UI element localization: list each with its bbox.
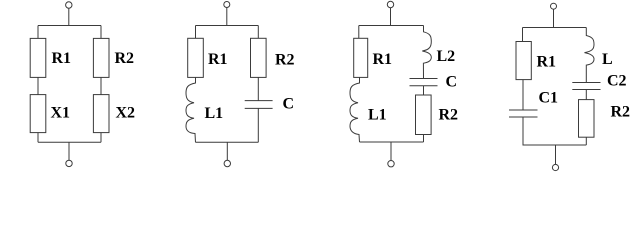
wire bottom bus: [38, 141, 101, 143]
capacitor C: [245, 101, 273, 109]
inductor L1: [350, 77, 360, 142]
wire bottom stem: [555, 145, 557, 164]
terminal top: [66, 2, 72, 8]
svg-text:C: C: [446, 73, 458, 90]
capacitor C2: [572, 83, 600, 90]
wire R2-C link: [257, 77, 259, 100]
resistor R2: [93, 38, 109, 77]
terminal bottom: [224, 160, 230, 166]
svg-text:X1: X1: [51, 104, 71, 121]
wire C2-R2 link: [585, 90, 587, 100]
resistor R1: [354, 38, 368, 77]
resistor R2: [416, 95, 432, 135]
wire top bus: [196, 25, 259, 27]
wire C-R2 link: [423, 86, 425, 95]
wire right bottom drop: [423, 135, 425, 143]
capacitor C: [410, 79, 438, 86]
inductor L2: [422, 26, 431, 79]
wire top bus: [38, 25, 101, 27]
resistor X1: [30, 95, 46, 133]
svg-text:R2: R2: [275, 51, 295, 68]
wire bottom stem: [68, 142, 70, 160]
wire top stem: [390, 8, 392, 26]
resistor R2: [251, 38, 267, 77]
svg-text:L1: L1: [205, 105, 224, 122]
resistor R1: [30, 38, 46, 77]
wire bottom bus: [360, 141, 424, 143]
wire top stem: [226, 8, 228, 26]
terminal top: [387, 1, 393, 7]
svg-text:L2: L2: [437, 48, 456, 65]
wire C1 bottom drop: [522, 117, 524, 145]
resistor R1: [516, 42, 531, 80]
svg-text:R1: R1: [52, 50, 72, 67]
wire left drop: [37, 26, 39, 39]
wire R1-C1 link: [522, 80, 524, 110]
svg-text:R2: R2: [439, 106, 459, 123]
wire top bus: [359, 25, 424, 27]
svg-text:C1: C1: [539, 89, 559, 106]
resistor R1: [188, 38, 204, 77]
inductor L1: [186, 77, 196, 142]
svg-text:L1: L1: [368, 107, 387, 124]
wire left bottom drop: [37, 133, 39, 143]
svg-text:L: L: [602, 51, 613, 68]
resistor R2: [579, 100, 595, 138]
inductor L: [585, 28, 595, 83]
wire right bottom drop: [585, 137, 587, 145]
wire bottom stem: [390, 142, 392, 161]
wire right drop: [257, 26, 259, 39]
wire top stem: [68, 8, 70, 25]
wire left drop: [358, 26, 360, 39]
terminal top: [224, 2, 230, 8]
svg-text:C: C: [283, 96, 295, 113]
svg-text:R2: R2: [115, 50, 135, 67]
wire left drop: [522, 28, 524, 42]
terminal bottom: [388, 161, 394, 167]
wire C bottom drop: [257, 108, 259, 142]
svg-text:R1: R1: [208, 51, 228, 68]
wire bottom stem: [226, 142, 228, 160]
svg-text:R1: R1: [537, 54, 557, 71]
svg-text:R1: R1: [373, 51, 393, 68]
wire bottom bus: [196, 141, 259, 143]
wire bottom bus: [523, 144, 587, 146]
wire R1-X1 link: [37, 77, 39, 94]
capacitor C1: [509, 110, 538, 117]
wire left drop: [195, 26, 197, 39]
terminal top: [551, 3, 557, 9]
wire right drop: [100, 26, 102, 39]
wire R2-X2 link: [100, 77, 102, 94]
svg-text:R2: R2: [611, 103, 631, 120]
wire top bus: [523, 27, 587, 29]
svg-text:X2: X2: [116, 104, 136, 121]
resistor X2: [93, 95, 109, 133]
svg-text:C2: C2: [607, 72, 627, 89]
wire top stem: [553, 9, 555, 27]
terminal bottom: [552, 164, 558, 170]
wire right bottom drop: [100, 133, 102, 143]
terminal bottom: [66, 160, 72, 166]
